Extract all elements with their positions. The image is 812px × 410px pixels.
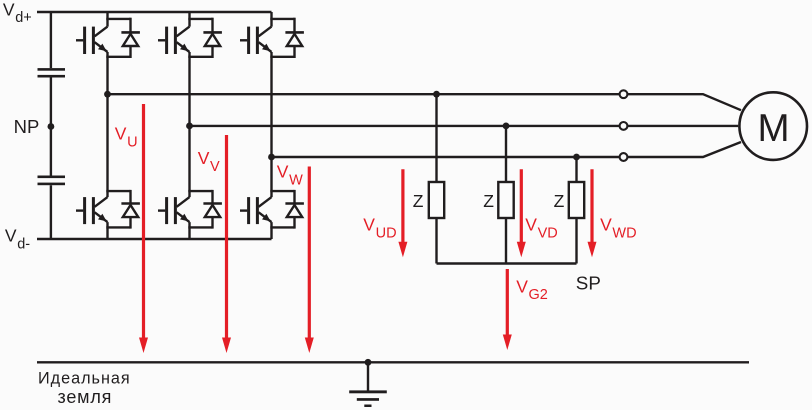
svg-text:G2: G2 xyxy=(529,287,548,303)
svg-text:M: M xyxy=(757,107,789,150)
svg-text:V: V xyxy=(5,226,17,246)
svg-text:NP: NP xyxy=(14,116,40,137)
svg-text:V: V xyxy=(210,159,220,175)
svg-text:земля: земля xyxy=(58,387,113,407)
svg-text:SP: SP xyxy=(576,272,601,293)
svg-text:V: V xyxy=(600,215,612,235)
svg-text:d+: d+ xyxy=(15,10,32,26)
svg-text:W: W xyxy=(289,173,303,189)
svg-text:V: V xyxy=(115,124,127,144)
svg-text:U: U xyxy=(127,135,137,151)
svg-text:d-: d- xyxy=(17,236,30,252)
svg-text:V: V xyxy=(3,0,15,19)
svg-text:Идеальная: Идеальная xyxy=(38,370,131,388)
svg-text:V: V xyxy=(525,215,537,235)
svg-text:V: V xyxy=(516,276,528,296)
svg-text:VD: VD xyxy=(538,225,558,241)
svg-text:Z: Z xyxy=(554,191,565,211)
svg-text:Z: Z xyxy=(413,191,424,211)
svg-text:V: V xyxy=(277,162,289,182)
svg-text:WD: WD xyxy=(612,225,636,241)
svg-text:V: V xyxy=(363,215,375,235)
svg-text:Z: Z xyxy=(483,191,494,211)
svg-text:V: V xyxy=(198,148,210,168)
svg-text:UD: UD xyxy=(376,225,397,241)
